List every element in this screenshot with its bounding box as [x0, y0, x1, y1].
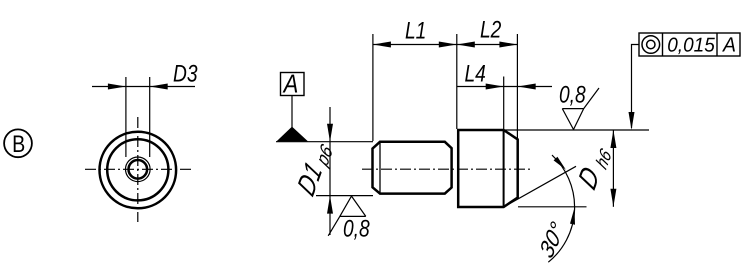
tolerance frame leader — [632, 45, 640, 129]
side view centerline — [362, 168, 531, 170]
svg-text:L1: L1 — [405, 18, 426, 45]
roughness symbol 0,8 top right — [562, 88, 599, 130]
dimension D top extension line — [504, 129, 649, 131]
side view large cylinder D outline — [458, 130, 518, 207]
svg-text:0,015: 0,015 — [667, 35, 715, 57]
dimension D line with arrows — [612, 130, 614, 207]
svg-text:0,8: 0,8 — [559, 82, 586, 109]
dimension D1 bottom extension line — [316, 195, 373, 197]
svg-text:L4: L4 — [465, 61, 486, 88]
front view inner circle — [107, 139, 168, 200]
svg-text:D3: D3 — [173, 61, 198, 88]
view label B — [4, 129, 32, 157]
roughness symbol 0,8 bottom left — [328, 196, 366, 236]
datum A filled triangle — [277, 127, 309, 142]
large cylinder chamfer start edge line — [503, 130, 505, 207]
dimension D3 extension line left — [125, 77, 127, 157]
svg-text:30°: 30° — [535, 216, 569, 263]
side view small cylinder D1 outline — [373, 142, 452, 194]
dimension L4 line with inner arrow — [457, 86, 552, 88]
dimension L2 extension line right — [516, 34, 518, 139]
dimension L1 extension line left — [372, 34, 374, 141]
dimension D3 arrow right — [150, 84, 168, 90]
front view vertical centerline — [137, 117, 139, 222]
chamfer angle arc — [548, 155, 574, 262]
svg-text:0,8: 0,8 — [343, 216, 370, 243]
tolerance frame box — [639, 33, 740, 56]
dimension L1/L2 shared extension line — [456, 34, 458, 129]
chamfer angle extension line 30 deg — [504, 166, 576, 207]
svg-text:Dh6: Dh6 — [573, 137, 616, 197]
svg-text:B: B — [12, 131, 25, 158]
dimension L1 line — [373, 44, 457, 46]
svg-text:A: A — [282, 69, 298, 99]
dimension L2 line — [457, 44, 518, 46]
front view chamfer circle — [126, 157, 151, 182]
front view horizontal centerline — [85, 168, 191, 170]
datum A stem — [291, 96, 293, 129]
small cylinder left chamfer edge line — [379, 142, 381, 194]
dimension D1 line with outside arrows — [329, 107, 331, 235]
dimension D bottom extension line — [518, 206, 587, 208]
concentricity symbol — [642, 36, 660, 54]
chamfer angle arrow top — [554, 157, 566, 170]
chamfer angle arrow bottom — [570, 208, 575, 225]
dimension D1 top extension line (datum seat) — [276, 141, 373, 143]
dimension L4 arrow right — [518, 84, 536, 90]
dimension D3 extension line right — [149, 77, 151, 157]
svg-text:L2: L2 — [480, 17, 501, 44]
front view outer circle — [100, 132, 177, 209]
front view hole circle D3 — [129, 160, 148, 179]
datum A frame — [281, 73, 305, 96]
dimension L4 extension line — [503, 77, 505, 130]
svg-text:A: A — [721, 34, 736, 57]
dimension D3 line left with arrow — [92, 86, 195, 88]
